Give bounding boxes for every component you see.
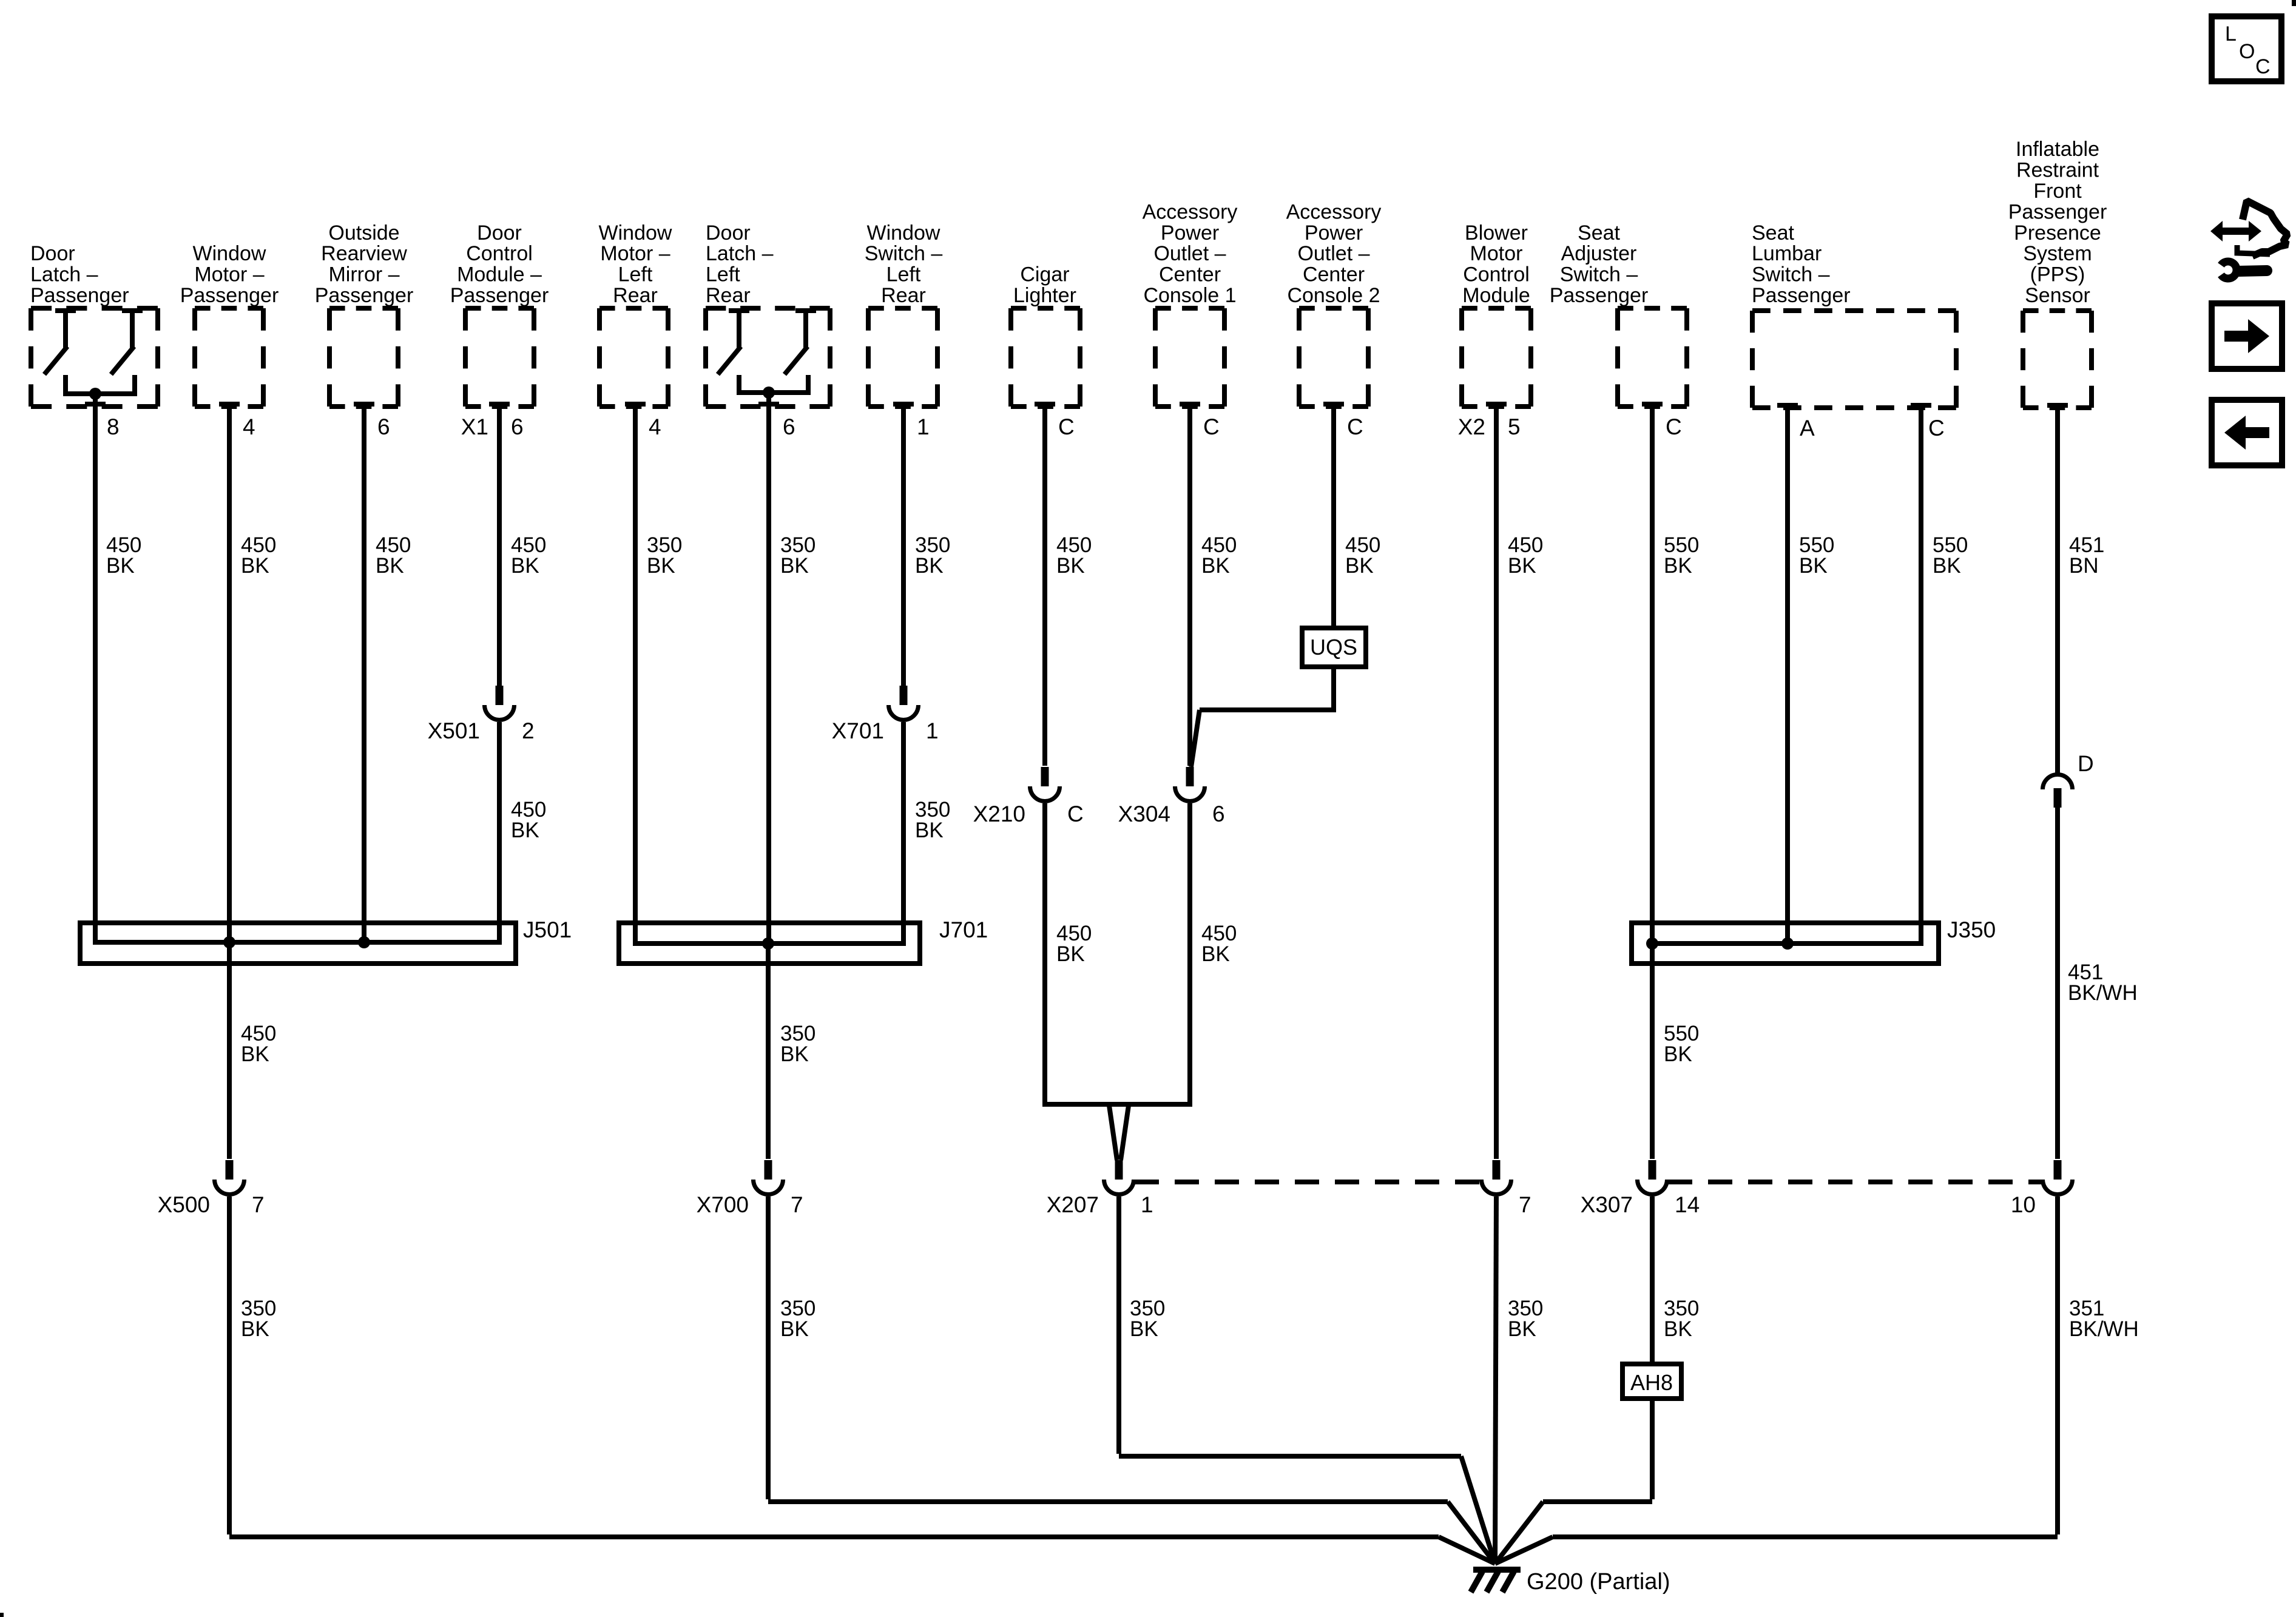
wire below AH8 to G200: [1495, 1399, 1652, 1564]
svg-text:7: 7: [1519, 1192, 1531, 1217]
component Door Latch - Passenger (dashed box): [30, 242, 158, 407]
svg-text:Presence: Presence: [2014, 221, 2101, 245]
wire from APO Center Console 2 pin C, circuit 450 BK: [1323, 404, 1344, 630]
svg-text:Power: Power: [1305, 221, 1363, 245]
component Accessory Power Outlet - Center Console 2 (dashed box): [1286, 200, 1382, 407]
svg-text:BK: BK: [1201, 554, 1230, 578]
svg-text:BK: BK: [376, 554, 404, 578]
wire from Door Control Module pin X1-6, circuit 450 BK: [489, 404, 510, 686]
svg-text:C: C: [1666, 414, 1682, 439]
svg-text:Center: Center: [1159, 263, 1221, 286]
svg-text:Left: Left: [706, 263, 740, 286]
svg-text:Seat: Seat: [1578, 221, 1620, 245]
svg-text:Module –: Module –: [457, 263, 542, 286]
wire 350 BK from X307 pin 14 through AH8 to G200: [1650, 1197, 1655, 1364]
wire 450 BK from J501 to X500: [227, 942, 232, 1159]
wire from Window Motor - Passenger pin 4, circuit 450 BK: [219, 404, 240, 945]
component Door Latch - Left Rear (dashed box): [706, 221, 830, 407]
wire from Outside Rearview Mirror pin 6, circuit 450 BK: [354, 404, 374, 945]
svg-text:Switch –: Switch –: [1560, 263, 1638, 286]
svg-text:C: C: [1067, 802, 1084, 826]
svg-text:Rearview: Rearview: [321, 242, 407, 265]
svg-text:Door: Door: [706, 221, 751, 245]
svg-text:J350: J350: [1947, 917, 1996, 942]
svg-text:Left: Left: [618, 263, 653, 286]
svg-text:Latch –: Latch –: [30, 263, 98, 286]
svg-text:System: System: [2023, 242, 2092, 265]
svg-text:Motor –: Motor –: [194, 263, 264, 286]
splice funnel into X207 pin 1: [1109, 1106, 1129, 1160]
svg-text:BK: BK: [1933, 554, 1961, 578]
component Accessory Power Outlet - Center Console 1 (dashed box): [1143, 200, 1238, 407]
svg-text:BK: BK: [1664, 1042, 1692, 1066]
svg-text:UQS: UQS: [1310, 635, 1357, 660]
wire from Seat Lumbar Switch pin A, circuit 550 BK: [1777, 405, 1798, 946]
svg-text:BK: BK: [511, 554, 539, 578]
svg-text:Outlet –: Outlet –: [1153, 242, 1226, 265]
splice pack J350: [1632, 923, 1939, 964]
svg-text:Left: Left: [886, 263, 921, 286]
svg-text:Front: Front: [2033, 180, 2082, 203]
svg-text:X2: X2: [1458, 414, 1485, 439]
svg-text:BK: BK: [647, 554, 675, 578]
svg-text:BK: BK: [915, 819, 944, 842]
svg-text:Module: Module: [1462, 284, 1530, 307]
svg-text:Rear: Rear: [881, 284, 926, 307]
wire 450 BK below X304: [1187, 803, 1192, 1107]
svg-text:1: 1: [917, 414, 930, 439]
svg-text:Accessory: Accessory: [1143, 200, 1238, 223]
svg-text:X500: X500: [158, 1192, 210, 1217]
wire joining Cigar Lighter and APO1 circuits: [1045, 803, 1190, 1107]
svg-text:Switch –: Switch –: [1752, 263, 1830, 286]
switch contacts inside Door Latch - Left Rear: [718, 311, 816, 399]
svg-text:C: C: [1203, 414, 1220, 439]
svg-text:Motor –: Motor –: [600, 242, 670, 265]
svg-text:7: 7: [252, 1192, 265, 1217]
wire 351 BK/WH from X307 pin 10 to G200: [1495, 1197, 2058, 1564]
svg-text:Control: Control: [1463, 263, 1530, 286]
icon: body repair (double arrow, panel outline, wrench): [2210, 201, 2288, 279]
svg-text:Rear: Rear: [613, 284, 658, 307]
svg-text:6: 6: [511, 414, 524, 439]
wire 350 BK below X701: [901, 722, 906, 946]
svg-text:BK: BK: [1056, 554, 1085, 578]
inline connector X210 pin C: [1030, 767, 1060, 802]
svg-text:Latch –: Latch –: [706, 242, 774, 265]
inline connector X207 pin 1: [1104, 1160, 1134, 1195]
component Window Switch - Left Rear (dashed box): [865, 221, 943, 407]
svg-text:2: 2: [522, 718, 535, 743]
svg-text:BK: BK: [1664, 554, 1692, 578]
wire 350 BK from X500 to G200: [229, 1197, 1495, 1564]
svg-text:Console 2: Console 2: [1287, 284, 1380, 307]
component Window Motor - Passenger (dashed box): [180, 242, 279, 407]
component Outside Rearview Mirror - Passenger (dashed box): [315, 221, 414, 407]
switch contacts inside Door Latch - Passenger: [44, 311, 143, 400]
svg-text:J701: J701: [939, 917, 988, 942]
dashed connector line X307: [1668, 1180, 2042, 1184]
wire from UQS down and left to X304: [1191, 667, 1336, 767]
svg-text:BK: BK: [241, 554, 269, 578]
svg-text:BK: BK: [511, 819, 539, 842]
wire from APO Center Console 1 pin C, circuit 450 BK: [1180, 404, 1200, 766]
component Cigar Lighter (dashed box): [1011, 263, 1080, 407]
svg-text:C: C: [1058, 414, 1075, 439]
wire 350 BK from X700 to G200: [768, 1197, 1495, 1564]
svg-text:BK: BK: [1201, 942, 1230, 966]
svg-text:Outside: Outside: [328, 221, 399, 245]
svg-text:Console 1: Console 1: [1143, 284, 1236, 307]
svg-text:Sensor: Sensor: [2025, 284, 2090, 307]
inline connector X304 pin 6: [1175, 767, 1205, 802]
inline connector X207 pin 7: [1482, 1160, 1511, 1195]
svg-text:Passenger: Passenger: [30, 284, 129, 307]
svg-text:Passenger: Passenger: [2008, 200, 2107, 223]
svg-text:Passenger: Passenger: [1550, 284, 1649, 307]
svg-text:BK: BK: [915, 554, 944, 578]
svg-text:8: 8: [107, 414, 120, 439]
svg-text:Passenger: Passenger: [315, 284, 414, 307]
inline connector X501 pin 2: [485, 686, 515, 720]
svg-text:BK: BK: [241, 1042, 269, 1066]
wire 350 BK from J701 to X700: [766, 944, 771, 1159]
svg-text:BN: BN: [2069, 554, 2099, 578]
wire 451 BK/WH below connector D: [2055, 808, 2060, 1159]
svg-text:Cigar: Cigar: [1020, 263, 1069, 286]
svg-text:J501: J501: [523, 917, 572, 942]
component Door Control Module - Passenger (dashed box): [450, 221, 549, 407]
svg-text:1: 1: [926, 718, 939, 743]
option code box AH8: [1622, 1364, 1681, 1399]
svg-text:Switch –: Switch –: [865, 242, 943, 265]
svg-text:X307: X307: [1581, 1192, 1633, 1217]
svg-text:C: C: [1347, 414, 1363, 439]
wire 450 BK below X210: [1042, 803, 1047, 1107]
svg-text:Lumbar: Lumbar: [1752, 242, 1822, 265]
svg-text:Motor: Motor: [1470, 242, 1523, 265]
svg-text:L: L: [2225, 22, 2237, 46]
component Blower Motor Control Module (dashed box): [1462, 221, 1531, 407]
wire from Blower Motor Control Module pin X2-5, circuit 450 BK: [1486, 404, 1507, 1159]
svg-text:X207: X207: [1047, 1192, 1099, 1217]
svg-text:Rear: Rear: [706, 284, 751, 307]
svg-text:Passenger: Passenger: [180, 284, 279, 307]
svg-text:Power: Power: [1161, 221, 1219, 245]
svg-text:BK/WH: BK/WH: [2069, 1317, 2139, 1341]
wire 450 BK below X501: [497, 722, 502, 945]
icon box arrow right: [2212, 303, 2282, 369]
dashed connector line X207: [1135, 1180, 1481, 1184]
svg-text:4: 4: [649, 414, 661, 439]
component Seat Lumbar Switch - Passenger (dashed box): [1752, 221, 1956, 408]
splice pack J501: [80, 923, 516, 964]
wire 350 BK from X207 pin 1 to G200: [1119, 1197, 1495, 1564]
svg-text:6: 6: [783, 414, 795, 439]
wire from Window Switch - Left Rear pin 1, circuit 350 BK: [893, 404, 914, 686]
svg-text:Mirror –: Mirror –: [328, 263, 399, 286]
svg-text:X701: X701: [832, 718, 884, 743]
svg-text:Window: Window: [599, 221, 672, 245]
inline connector X701 pin 1: [889, 686, 919, 720]
svg-text:X210: X210: [973, 802, 1025, 826]
svg-text:Blower: Blower: [1465, 221, 1528, 245]
svg-text:Passenger: Passenger: [1752, 284, 1851, 307]
svg-text:Door: Door: [30, 242, 75, 265]
svg-text:AH8: AH8: [1630, 1370, 1673, 1395]
svg-text:BK: BK: [1056, 942, 1085, 966]
page corner mark bottom left: [0, 1613, 4, 1617]
wire 350 BK from X207 pin 7 (Blower) to G200: [1495, 1197, 1496, 1564]
svg-text:Inflatable: Inflatable: [2016, 138, 2099, 161]
svg-text:BK: BK: [106, 554, 135, 578]
wire from PPS Sensor, circuit 451 BN: [2047, 405, 2068, 773]
svg-text:Passenger: Passenger: [450, 284, 549, 307]
svg-text:Window: Window: [193, 242, 266, 265]
inline connector D (inverted cup): [2043, 775, 2073, 808]
svg-text:BK: BK: [1664, 1317, 1692, 1341]
component Window Motor - Left Rear (dashed box): [599, 221, 672, 407]
ground G200 (Partial): [1471, 1570, 1521, 1592]
svg-text:X304: X304: [1118, 802, 1170, 826]
svg-text:BK: BK: [1345, 554, 1374, 578]
svg-text:6: 6: [377, 414, 390, 439]
wire from Cigar Lighter pin C, circuit 450 BK: [1035, 404, 1055, 766]
svg-text:Accessory: Accessory: [1286, 200, 1382, 223]
svg-text:O: O: [2239, 40, 2255, 63]
svg-text:BK: BK: [241, 1317, 269, 1341]
svg-text:Seat: Seat: [1752, 221, 1794, 245]
svg-text:BK: BK: [780, 1042, 809, 1066]
svg-text:5: 5: [1508, 414, 1521, 439]
icon box LOC: [2212, 16, 2281, 81]
wire from Door Latch - Left Rear pin 6, circuit 350 BK: [758, 393, 779, 946]
svg-text:C: C: [2255, 55, 2271, 78]
svg-text:10: 10: [2011, 1192, 2036, 1217]
option code box UQS: [1302, 628, 1366, 667]
svg-text:Control: Control: [466, 242, 533, 265]
svg-text:BK: BK: [780, 554, 809, 578]
svg-text:(PPS): (PPS): [2030, 263, 2085, 286]
inline connector X307 pin 10: [2043, 1160, 2073, 1195]
svg-text:Window: Window: [867, 221, 940, 245]
wire from Window Motor - Left Rear pin 4, circuit 350 BK: [625, 404, 646, 946]
svg-text:BK: BK: [780, 1317, 809, 1341]
svg-text:Outlet –: Outlet –: [1297, 242, 1369, 265]
wire from Seat Lumbar Switch pin C, circuit 550 BK: [1911, 405, 1931, 946]
wire from Seat Adjuster Switch pin C, circuit 550 BK: [1642, 404, 1663, 1159]
svg-text:D: D: [2078, 751, 2094, 776]
splice pack J701: [619, 923, 920, 964]
svg-text:6: 6: [1212, 802, 1225, 826]
svg-text:A: A: [1800, 416, 1815, 441]
svg-text:BK: BK: [1799, 554, 1828, 578]
svg-text:X700: X700: [697, 1192, 749, 1217]
inline connector X700 pin 7: [754, 1160, 783, 1195]
svg-text:BK/WH: BK/WH: [2068, 981, 2138, 1005]
svg-text:Adjuster: Adjuster: [1561, 242, 1637, 265]
svg-text:G200 (Partial): G200 (Partial): [1527, 1569, 1670, 1595]
svg-text:7: 7: [791, 1192, 803, 1217]
svg-text:BK: BK: [1130, 1317, 1158, 1341]
svg-text:C: C: [1928, 416, 1945, 441]
svg-text:Restraint: Restraint: [2016, 159, 2099, 182]
component Inflatable Restraint Front Passenger Presence System (PPS) Sensor (dashed box): [2008, 138, 2107, 408]
component Seat Adjuster Switch - Passenger (dashed box): [1550, 221, 1687, 407]
svg-text:Lighter: Lighter: [1013, 284, 1076, 307]
svg-text:X1: X1: [461, 414, 488, 439]
icon box arrow left: [2212, 400, 2282, 465]
page corner mark top right: [2292, 0, 2296, 6]
inline connector X500 pin 7: [215, 1160, 245, 1195]
svg-text:BK: BK: [1508, 1317, 1536, 1341]
svg-text:X501: X501: [428, 718, 480, 743]
svg-text:1: 1: [1141, 1192, 1153, 1217]
svg-text:Door: Door: [477, 221, 522, 245]
inline connector X307 pin 14: [1638, 1160, 1667, 1195]
wire from Door Latch - Passenger pin 8, circuit 450 BK: [85, 394, 106, 945]
svg-text:14: 14: [1675, 1192, 1700, 1217]
svg-text:BK: BK: [1508, 554, 1536, 578]
svg-text:4: 4: [243, 414, 255, 439]
svg-text:Center: Center: [1303, 263, 1365, 286]
